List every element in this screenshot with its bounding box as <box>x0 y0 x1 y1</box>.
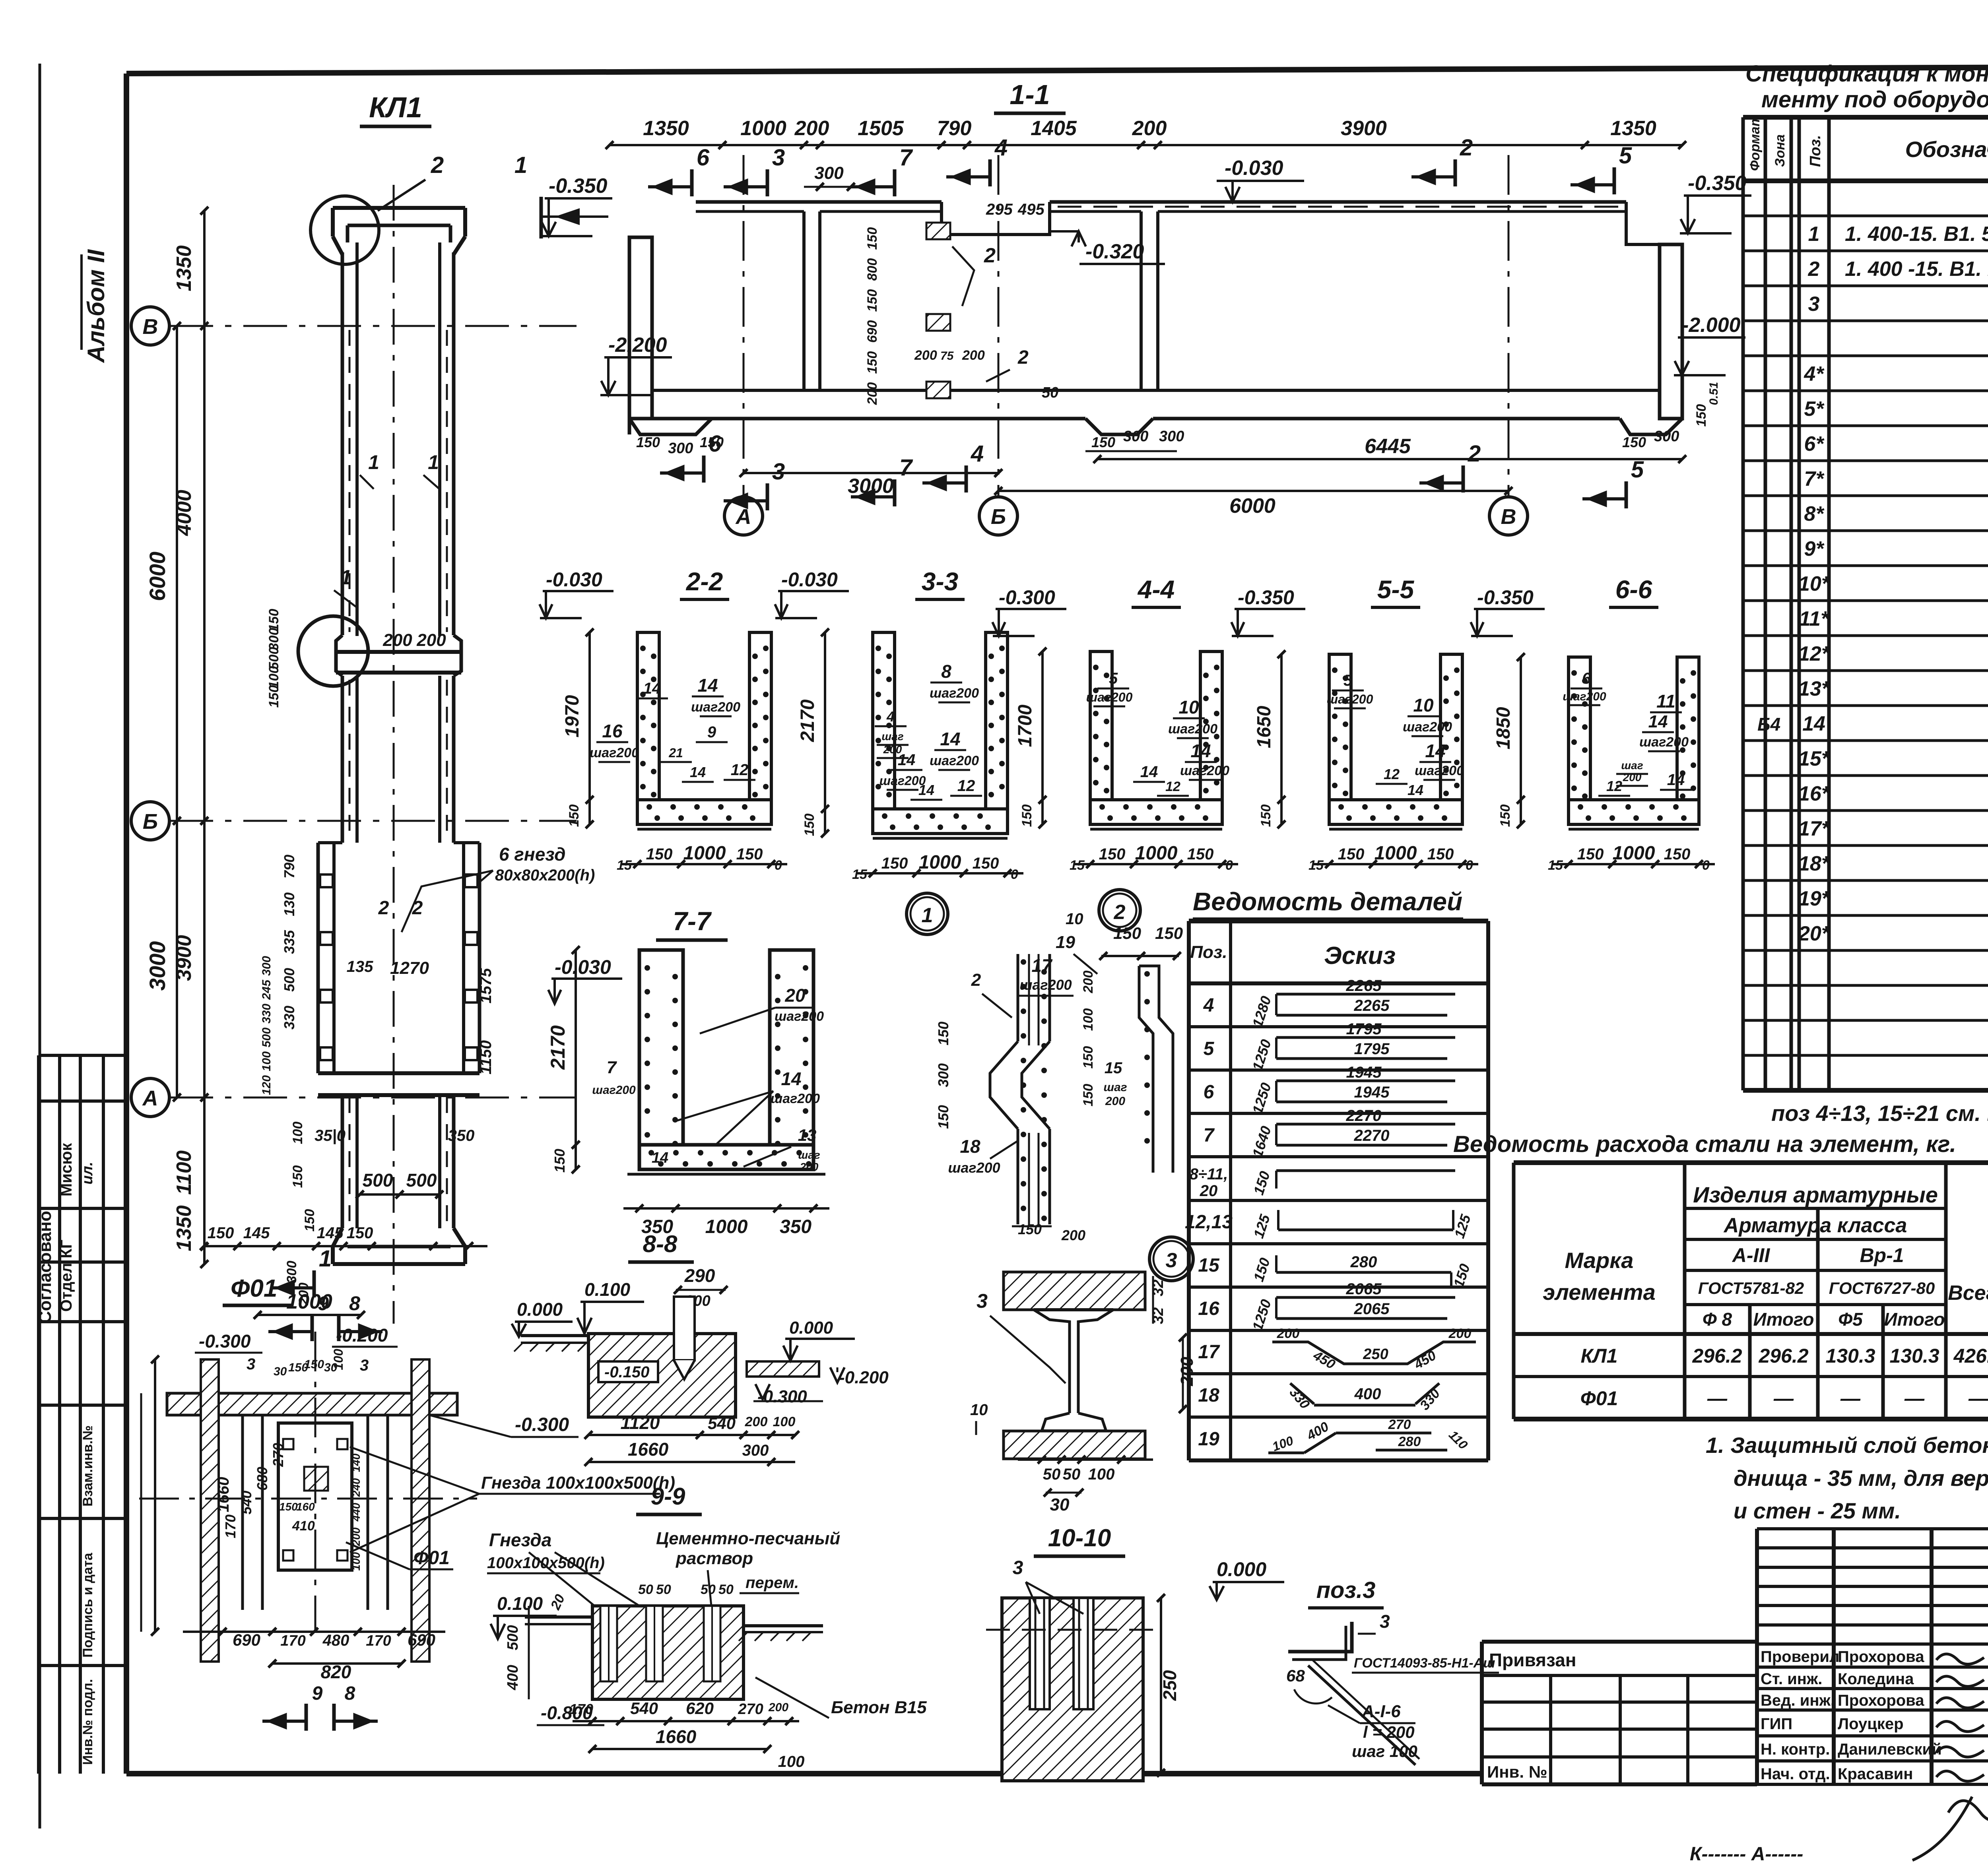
svg-text:800: 800 <box>865 258 880 281</box>
svg-text:14: 14 <box>1648 712 1668 731</box>
svg-text:200: 200 <box>1623 771 1642 783</box>
svg-text:1280: 1280 <box>1249 994 1274 1030</box>
svg-text:200: 200 <box>745 1414 768 1429</box>
svg-text:шаг200: шаг200 <box>775 1009 824 1024</box>
svg-text:145: 145 <box>317 1224 344 1242</box>
svg-text:150: 150 <box>1187 845 1214 863</box>
svg-text:-0.350: -0.350 <box>1688 172 1747 195</box>
svg-text:Красавин: Красавин <box>1838 1765 1913 1783</box>
svg-text:3-3: 3-3 <box>922 567 959 596</box>
svg-text:1350: 1350 <box>173 1205 196 1251</box>
svg-text:Всего: Всего <box>1948 1282 1988 1305</box>
svg-text:5: 5 <box>1343 672 1353 689</box>
svg-text:10: 10 <box>1178 697 1199 717</box>
svg-text:1000: 1000 <box>919 852 961 873</box>
svg-text:1000: 1000 <box>683 843 726 864</box>
svg-text:Согласовано: Согласовано <box>35 1211 55 1324</box>
svg-text:1250: 1250 <box>1249 1081 1274 1116</box>
svg-text:6: 6 <box>697 145 710 171</box>
svg-text:Взам.инв.№: Взам.инв.№ <box>80 1425 95 1507</box>
svg-text:-0.030: -0.030 <box>1225 157 1283 180</box>
svg-text:2: 2 <box>1017 347 1029 368</box>
svg-text:426.5: 426.5 <box>1953 1345 1988 1367</box>
svg-text:А-III: А-III <box>1732 1244 1771 1266</box>
svg-text:Ф01: Ф01 <box>414 1547 450 1569</box>
svg-text:200: 200 <box>1448 1326 1472 1341</box>
svg-text:280: 280 <box>1398 1434 1421 1449</box>
svg-text:14: 14 <box>643 680 661 697</box>
svg-text:820: 820 <box>321 1662 351 1682</box>
svg-text:12: 12 <box>731 761 749 779</box>
svg-text:5: 5 <box>1109 670 1118 687</box>
svg-text:110: 110 <box>1446 1427 1471 1452</box>
svg-text:150: 150 <box>636 434 660 450</box>
svg-text:15: 15 <box>617 858 632 873</box>
svg-text:150: 150 <box>1091 434 1115 450</box>
svg-text:Б: Б <box>143 810 158 834</box>
svg-text:350: 350 <box>780 1216 812 1237</box>
svg-text:150: 150 <box>1664 845 1691 863</box>
svg-text:150: 150 <box>1694 404 1709 427</box>
svg-text:0: 0 <box>775 858 782 873</box>
svg-text:200: 200 <box>865 382 880 405</box>
svg-text:2-2: 2-2 <box>686 567 723 596</box>
svg-text:10: 10 <box>1066 910 1083 928</box>
svg-text:—: — <box>1904 1387 1925 1410</box>
svg-text:поз 4÷13, 15÷21 см. ведомость: поз 4÷13, 15÷21 см. ведомость деталей <box>1771 1101 1988 1126</box>
svg-text:680: 680 <box>254 1467 270 1491</box>
svg-text:150: 150 <box>865 227 880 250</box>
svg-text:150: 150 <box>1258 805 1274 827</box>
svg-text:Изделия арматурные: Изделия арматурные <box>1693 1182 1938 1207</box>
svg-text:540: 540 <box>238 1491 254 1514</box>
svg-text:Вед. инж.: Вед. инж. <box>1761 1692 1835 1709</box>
svg-text:Вр-1: Вр-1 <box>1860 1244 1904 1266</box>
svg-text:200: 200 <box>382 630 412 650</box>
svg-text:ГОСТ6727-80: ГОСТ6727-80 <box>1829 1279 1935 1297</box>
svg-text:150: 150 <box>551 1149 568 1173</box>
svg-text:690: 690 <box>233 1631 260 1649</box>
svg-text:-0.350: -0.350 <box>1238 586 1294 609</box>
svg-text:150: 150 <box>208 1224 234 1242</box>
svg-text:-2.200: -2.200 <box>608 334 667 357</box>
svg-text:300: 300 <box>742 1442 769 1459</box>
svg-text:8*: 8* <box>1804 502 1825 525</box>
svg-text:790: 790 <box>937 117 972 140</box>
svg-text:150: 150 <box>279 1501 298 1513</box>
svg-text:8÷11,: 8÷11, <box>1190 1165 1228 1183</box>
svg-text:50: 50 <box>1043 1466 1061 1483</box>
svg-text:16: 16 <box>1198 1298 1219 1319</box>
svg-text:4: 4 <box>886 708 895 725</box>
svg-text:Привязан: Привязан <box>1489 1650 1576 1670</box>
svg-text:130: 130 <box>281 892 297 916</box>
svg-text:150: 150 <box>1450 1262 1473 1289</box>
svg-text:1000: 1000 <box>705 1216 748 1237</box>
svg-text:100: 100 <box>778 1753 805 1770</box>
svg-text:1000: 1000 <box>1613 843 1655 864</box>
svg-text:8: 8 <box>941 661 951 682</box>
svg-text:7: 7 <box>899 455 913 481</box>
svg-text:500: 500 <box>505 1625 521 1650</box>
svg-text:1270: 1270 <box>390 958 429 978</box>
svg-text:К------- А------: К------- А------ <box>1690 1844 1803 1865</box>
svg-text:1. Защитный слой бетона дл: 1. Защитный слой бетона для нижней армат… <box>1706 1433 1988 1458</box>
svg-text:300: 300 <box>935 1063 951 1087</box>
svg-text:1650: 1650 <box>1254 706 1275 748</box>
svg-text:150: 150 <box>881 855 908 872</box>
svg-text:Н. контр.: Н. контр. <box>1761 1741 1830 1758</box>
svg-text:А: А <box>735 505 751 529</box>
svg-text:9: 9 <box>707 723 716 741</box>
svg-text:1350: 1350 <box>1610 117 1656 140</box>
svg-text:300: 300 <box>284 1261 299 1284</box>
svg-text:0: 0 <box>1225 858 1233 873</box>
svg-text:10: 10 <box>970 1401 988 1419</box>
svg-text:В: В <box>143 315 158 339</box>
svg-text:15: 15 <box>1070 858 1085 873</box>
svg-text:15: 15 <box>852 867 868 882</box>
svg-text:200: 200 <box>416 630 446 650</box>
svg-text:500: 500 <box>406 1170 437 1191</box>
svg-text:6-6: 6-6 <box>1615 575 1652 604</box>
svg-text:шаг200: шаг200 <box>1415 763 1464 778</box>
svg-text:шаг 100: шаг 100 <box>1352 1742 1417 1761</box>
svg-text:менту под оборудование Ф01: менту под оборудование Ф01 <box>1761 87 1988 112</box>
svg-text:100: 100 <box>1088 1466 1115 1483</box>
svg-text:3: 3 <box>772 459 785 485</box>
svg-text:Зона: Зона <box>1773 134 1788 167</box>
svg-text:1: 1 <box>368 451 379 473</box>
svg-text:3: 3 <box>1166 1249 1177 1272</box>
svg-text:18: 18 <box>960 1136 980 1157</box>
svg-text:9*: 9* <box>1804 537 1825 560</box>
svg-text:690: 690 <box>865 320 880 343</box>
svg-text:100: 100 <box>290 1122 305 1144</box>
svg-text:-0.800: -0.800 <box>541 1702 593 1723</box>
svg-text:раствор: раствор <box>676 1549 753 1568</box>
svg-text:9: 9 <box>318 1292 329 1315</box>
svg-text:2170: 2170 <box>547 1025 569 1070</box>
svg-text:шаг200: шаг200 <box>1327 692 1373 706</box>
svg-text:2: 2 <box>984 244 996 267</box>
svg-text:1000: 1000 <box>740 117 786 140</box>
svg-text:200: 200 <box>962 348 985 363</box>
svg-text:шаг: шаг <box>1621 759 1643 772</box>
svg-text:290: 290 <box>684 1265 715 1286</box>
svg-text:2: 2 <box>971 970 981 990</box>
svg-text:50: 50 <box>656 1582 671 1597</box>
svg-text:150: 150 <box>1155 924 1183 942</box>
svg-text:0.51: 0.51 <box>1707 382 1720 405</box>
svg-text:Поз.: Поз. <box>1190 942 1227 962</box>
svg-text:14: 14 <box>781 1068 801 1089</box>
svg-text:шаг200: шаг200 <box>1403 719 1452 735</box>
svg-text:50: 50 <box>1042 384 1058 401</box>
svg-text:410: 410 <box>292 1518 315 1534</box>
svg-text:1250: 1250 <box>1249 1037 1274 1073</box>
svg-text:шаг200: шаг200 <box>1180 763 1229 778</box>
svg-text:0.000: 0.000 <box>1217 1558 1266 1580</box>
svg-text:3: 3 <box>1380 1611 1390 1632</box>
svg-text:А-I-6: А-I-6 <box>1361 1702 1401 1721</box>
svg-text:495: 495 <box>1017 201 1044 218</box>
svg-text:поз.3: поз.3 <box>1316 1577 1376 1603</box>
svg-text:0: 0 <box>1011 867 1018 882</box>
svg-text:3900: 3900 <box>1341 117 1387 140</box>
svg-text:330: 330 <box>1287 1385 1313 1412</box>
svg-text:1640: 1640 <box>1249 1124 1274 1160</box>
svg-text:335: 335 <box>281 930 297 954</box>
svg-text:1120: 1120 <box>621 1412 660 1433</box>
svg-text:1660: 1660 <box>656 1726 697 1747</box>
svg-text:16*: 16* <box>1798 782 1831 805</box>
svg-text:Гнезда 100х100х500(h): Гнезда 100х100х500(h) <box>481 1473 675 1493</box>
svg-text:1000: 1000 <box>1135 843 1178 864</box>
svg-text:2170: 2170 <box>797 699 818 742</box>
svg-text:2: 2 <box>431 152 444 178</box>
svg-text:500: 500 <box>260 1028 273 1047</box>
svg-text:14: 14 <box>918 782 934 798</box>
svg-text:шаг: шаг <box>798 1149 820 1161</box>
svg-text:8-8: 8-8 <box>643 1231 678 1257</box>
svg-text:500: 500 <box>363 1170 393 1191</box>
svg-text:7: 7 <box>1204 1125 1215 1146</box>
svg-text:150: 150 <box>567 805 582 827</box>
svg-text:ГОСТ14093-85-Н1-Аш: ГОСТ14093-85-Н1-Аш <box>1354 1656 1495 1671</box>
svg-text:перем.: перем. <box>745 1574 799 1592</box>
svg-text:13: 13 <box>798 1126 817 1144</box>
svg-text:75: 75 <box>940 349 954 363</box>
svg-text:140: 140 <box>350 1453 362 1472</box>
svg-text:12: 12 <box>1384 766 1400 782</box>
svg-text:1. 400 -15. В1. 120 - 48: 1. 400 -15. В1. 120 - 48 <box>1845 258 1988 281</box>
svg-text:245: 245 <box>260 979 273 1000</box>
svg-text:и стен - 25 мм.: и стен - 25 мм. <box>1734 1498 1901 1523</box>
svg-text:шаг: шаг <box>1103 1081 1127 1094</box>
svg-text:шаг200: шаг200 <box>691 700 740 715</box>
svg-text:125: 125 <box>1250 1212 1273 1240</box>
svg-text:240: 240 <box>350 1478 362 1497</box>
svg-text:2: 2 <box>378 898 389 919</box>
svg-text:50: 50 <box>1063 1466 1081 1483</box>
svg-text:-0.200: -0.200 <box>839 1368 889 1387</box>
svg-text:—: — <box>1773 1387 1794 1410</box>
svg-text:-0.350: -0.350 <box>549 175 608 198</box>
svg-text:4: 4 <box>1203 995 1214 1016</box>
svg-text:1575: 1575 <box>477 968 495 1004</box>
svg-text:150: 150 <box>1338 845 1365 863</box>
svg-text:Эскиз: Эскиз <box>1324 942 1396 969</box>
svg-text:14: 14 <box>1667 771 1685 789</box>
svg-text:450: 450 <box>1411 1348 1439 1373</box>
svg-text:18*: 18* <box>1798 852 1831 875</box>
svg-text:шаг200: шаг200 <box>1563 690 1606 703</box>
svg-text:200: 200 <box>1061 1227 1085 1243</box>
svg-text:5*: 5* <box>1804 397 1825 421</box>
svg-text:150: 150 <box>646 845 673 863</box>
svg-text:1250: 1250 <box>1249 1297 1274 1333</box>
svg-text:200: 200 <box>1132 117 1167 140</box>
svg-text:—: — <box>1707 1387 1728 1410</box>
svg-text:14: 14 <box>697 675 718 696</box>
svg-text:300: 300 <box>260 956 273 976</box>
svg-text:l = 200: l = 200 <box>1363 1723 1415 1741</box>
svg-text:Итого: Итого <box>1753 1309 1814 1330</box>
svg-text:100: 100 <box>773 1414 796 1429</box>
svg-text:шаг200: шаг200 <box>590 745 639 760</box>
svg-text:Данилевский: Данилевский <box>1838 1741 1942 1758</box>
svg-text:130.3: 130.3 <box>1889 1345 1939 1367</box>
svg-text:10-10: 10-10 <box>1048 1524 1111 1552</box>
svg-text:7-7: 7-7 <box>673 906 712 936</box>
svg-text:шаг200: шаг200 <box>930 686 979 701</box>
svg-text:Ф5: Ф5 <box>1838 1309 1863 1330</box>
svg-text:1660: 1660 <box>628 1439 669 1460</box>
svg-text:ГИП: ГИП <box>1761 1715 1792 1733</box>
svg-text:16: 16 <box>602 721 623 741</box>
svg-text:200: 200 <box>800 1161 819 1173</box>
svg-text:1-1: 1-1 <box>1010 79 1050 110</box>
svg-text:200: 200 <box>914 348 937 363</box>
svg-text:440: 440 <box>350 1503 362 1522</box>
svg-text:2: 2 <box>1460 135 1473 161</box>
svg-text:14: 14 <box>652 1150 668 1166</box>
svg-text:1795: 1795 <box>1354 1040 1390 1058</box>
svg-text:0: 0 <box>1702 858 1710 873</box>
svg-text:Проверил: Проверил <box>1761 1648 1839 1666</box>
svg-text:Б: Б <box>991 505 1006 529</box>
svg-text:Марка: Марка <box>1565 1248 1634 1273</box>
svg-text:620: 620 <box>686 1699 714 1718</box>
svg-text:1795: 1795 <box>1346 1020 1382 1038</box>
svg-text:12: 12 <box>957 777 975 795</box>
svg-text:-0.030: -0.030 <box>546 568 602 591</box>
svg-text:1970: 1970 <box>562 695 583 737</box>
svg-text:200: 200 <box>1105 1095 1125 1108</box>
svg-text:150: 150 <box>266 685 282 708</box>
svg-text:3: 3 <box>247 1355 255 1373</box>
svg-text:3: 3 <box>772 145 785 171</box>
svg-text:5-5: 5-5 <box>1377 575 1415 604</box>
svg-text:1: 1 <box>319 1246 332 1272</box>
svg-text:3: 3 <box>1808 293 1820 316</box>
svg-text:540: 540 <box>708 1414 736 1433</box>
svg-text:130.3: 130.3 <box>1825 1345 1875 1367</box>
svg-text:330: 330 <box>281 1006 297 1030</box>
svg-text:300: 300 <box>668 440 693 457</box>
svg-text:Нач. отд.: Нач. отд. <box>1761 1765 1830 1783</box>
svg-text:2065: 2065 <box>1346 1280 1382 1298</box>
svg-text:8: 8 <box>349 1292 360 1315</box>
svg-text:150: 150 <box>865 289 880 312</box>
svg-text:350: 350 <box>448 1127 475 1144</box>
svg-text:1100: 1100 <box>173 1150 196 1195</box>
svg-text:200: 200 <box>1081 971 1096 994</box>
svg-text:шаг200: шаг200 <box>592 1084 636 1097</box>
svg-text:150: 150 <box>935 1105 951 1129</box>
svg-text:1: 1 <box>514 152 527 178</box>
svg-text:296.2: 296.2 <box>1758 1345 1808 1367</box>
svg-text:Цементно-песчаный: Цементно-песчаный <box>656 1529 840 1548</box>
svg-text:1: 1 <box>340 566 352 589</box>
svg-text:15: 15 <box>1198 1255 1220 1276</box>
svg-text:шаг200: шаг200 <box>1639 735 1689 750</box>
svg-text:10*: 10* <box>1798 572 1831 595</box>
svg-text:4-4: 4-4 <box>1137 575 1175 604</box>
svg-text:1350: 1350 <box>173 245 196 291</box>
svg-text:2: 2 <box>412 898 423 919</box>
svg-text:14: 14 <box>1140 763 1158 781</box>
svg-text:2: 2 <box>1468 441 1481 467</box>
svg-text:Прохорова: Прохорова <box>1838 1648 1924 1666</box>
svg-text:100: 100 <box>1081 1008 1096 1031</box>
svg-text:150: 150 <box>1018 1221 1042 1237</box>
svg-text:шаг200: шаг200 <box>948 1160 1000 1176</box>
svg-text:Лоуцкер: Лоуцкер <box>1838 1715 1904 1733</box>
svg-text:30: 30 <box>274 1365 287 1378</box>
svg-text:шаг200: шаг200 <box>1086 690 1133 704</box>
svg-text:14: 14 <box>1408 782 1423 798</box>
svg-text:1945: 1945 <box>1346 1064 1382 1081</box>
svg-text:15: 15 <box>1105 1059 1122 1077</box>
svg-text:17: 17 <box>1031 955 1053 976</box>
svg-text:-0.030: -0.030 <box>781 568 838 591</box>
svg-text:2265: 2265 <box>1354 997 1390 1014</box>
svg-text:6445: 6445 <box>1365 435 1411 458</box>
svg-text:300: 300 <box>1654 428 1679 445</box>
svg-text:450: 450 <box>1310 1348 1338 1372</box>
svg-text:3: 3 <box>977 1290 988 1312</box>
svg-text:Итого: Итого <box>1884 1309 1945 1330</box>
svg-text:-0.150: -0.150 <box>604 1363 649 1381</box>
svg-text:150: 150 <box>973 855 999 872</box>
svg-text:12*: 12* <box>1798 642 1831 665</box>
svg-text:150: 150 <box>347 1224 373 1242</box>
svg-text:50: 50 <box>718 1582 734 1597</box>
svg-text:Ведомость деталей: Ведомость деталей <box>1193 887 1462 916</box>
svg-text:9: 9 <box>312 1683 323 1704</box>
svg-text:19: 19 <box>1056 933 1075 952</box>
svg-text:250: 250 <box>1363 1346 1388 1363</box>
svg-text:8: 8 <box>345 1683 355 1704</box>
svg-text:270: 270 <box>738 1701 763 1718</box>
svg-text:2270: 2270 <box>1346 1107 1382 1125</box>
svg-text:100: 100 <box>331 1349 346 1370</box>
svg-text:50: 50 <box>638 1582 653 1597</box>
svg-text:шаг200: шаг200 <box>930 753 979 768</box>
svg-text:1850: 1850 <box>1493 707 1514 749</box>
svg-text:2: 2 <box>1114 901 1126 924</box>
svg-text:Ф01: Ф01 <box>1580 1387 1618 1410</box>
svg-text:0: 0 <box>1466 858 1473 873</box>
svg-text:шаг200: шаг200 <box>771 1091 820 1106</box>
svg-text:150: 150 <box>1081 1046 1096 1069</box>
svg-text:1150: 1150 <box>477 1040 495 1074</box>
svg-text:330: 330 <box>1417 1386 1443 1413</box>
svg-text:6000: 6000 <box>1229 494 1276 518</box>
svg-text:20: 20 <box>1200 1182 1218 1200</box>
svg-text:0.100: 0.100 <box>497 1593 543 1614</box>
svg-text:15: 15 <box>1309 858 1324 873</box>
svg-text:10: 10 <box>1413 695 1434 715</box>
svg-text:15*: 15* <box>1798 747 1831 770</box>
svg-text:2270: 2270 <box>1354 1127 1390 1144</box>
svg-text:150: 150 <box>1250 1169 1273 1197</box>
svg-text:Формат: Формат <box>1747 114 1763 171</box>
svg-text:А: А <box>142 1086 158 1110</box>
svg-text:125: 125 <box>1451 1212 1474 1240</box>
